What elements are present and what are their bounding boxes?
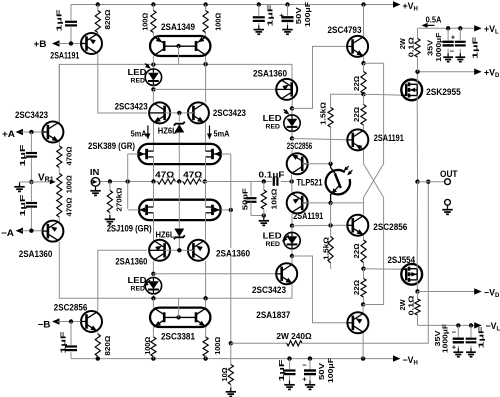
- MOSFET 2SJ554 (output, P-channel): [401, 264, 422, 285]
- dual JFET 2SK389 (GR) input pair: [138, 144, 221, 164]
- svg-text:−: −: [452, 328, 457, 337]
- wire gate node to 2SK2955 gate: [364, 94, 407, 95]
- svg-text:LED: LED: [263, 113, 282, 123]
- dual transistor 2SC3381 (bottom current mirror package): [150, 308, 210, 327]
- label 2SA1360 (right lower cascode): [215, 248, 251, 257]
- svg-text:2SC3423: 2SC3423: [115, 101, 148, 111]
- dual transistor 2SA1349 (input current mirror package): [150, 36, 210, 56]
- wire 2SJ554 drain down to -V_D node: [416, 280, 418, 292]
- resistor 47 ohm (left source): [158, 179, 176, 184]
- wire 2SC3423 collector up to mid rail: [58, 64, 60, 122]
- wire center tap down to mid rail: [178, 46, 180, 64]
- node LED4 top junction: [290, 224, 294, 228]
- label -V_L with arrow: [474, 322, 482, 328]
- LED RED (VAS bias upper): [291, 108, 293, 115]
- resistor 820 ohm (bottom left): [97, 332, 99, 334]
- svg-text:50V: 50V: [317, 362, 326, 380]
- svg-text:0.5A: 0.5A: [426, 14, 442, 24]
- svg-text:+: +: [302, 375, 307, 384]
- svg-text:HZ6L: HZ6L: [156, 230, 175, 239]
- svg-text:2SA1360: 2SA1360: [115, 257, 147, 267]
- transistor 2SA1191 (VAS lower, PNP mirrored): [287, 192, 308, 213]
- wire 2SJ109 sources up to 47 ohm rail: [153, 182, 155, 208]
- wire LED junction down to 2SC3423 collector: [152, 89, 154, 102]
- svg-text:100Ω: 100Ω: [140, 13, 149, 31]
- wire 2SA1191 base to TLP junction: [302, 202, 330, 204]
- svg-text:100μF: 100μF: [303, 2, 312, 27]
- node source-rail junctions: [151, 179, 155, 183]
- capacitor 1uF (-A to ground): [30, 182, 32, 202]
- label +V_H with arrow: [393, 1, 401, 7]
- wire emitter junction to bypass column: [364, 63, 384, 164]
- wire 2SA1837 emitter to junction: [362, 305, 364, 313]
- node LED2 bottom junction: [290, 136, 294, 140]
- transistor 2SA1360 (far left input, PNP): [42, 221, 63, 242]
- wire right 2SA1360 collector down to lower mid rail: [205, 261, 207, 299]
- LED RED (top bias chain): [152, 65, 154, 69]
- svg-text:IN: IN: [90, 167, 100, 177]
- node comp junctions: [262, 179, 266, 183]
- svg-text:47Ω: 47Ω: [155, 171, 175, 180]
- capacitor 1uF (top left, rail to +B line): [70, 5, 72, 21]
- wire VR1 wiper to ground junction: [31, 181, 51, 183]
- svg-text:2SK2955: 2SK2955: [426, 87, 461, 97]
- resistor 100 ohm (left, below 2SC3381): [152, 327, 154, 337]
- capacitor 35V 1000uF (-V_L): [457, 325, 459, 337]
- svg-text:LED: LED: [128, 275, 147, 285]
- node 2SC4793 emitter junction: [361, 61, 365, 65]
- wire cross-over diagonals: [364, 164, 384, 198]
- svg-text:LED: LED: [128, 67, 147, 77]
- capacitor 50V 100uF (-V_H bypass): [309, 359, 311, 369]
- capacitor 1uF (bottom left, -B to rail): [70, 322, 72, 346]
- svg-text:HZ6L: HZ6L: [158, 126, 177, 135]
- svg-text:+: +: [452, 343, 457, 352]
- svg-text:+B: +B: [34, 39, 48, 49]
- svg-text:22Ω: 22Ω: [352, 107, 361, 122]
- transistor 2SC4793 (pre-driver upper, NPN): [347, 36, 368, 57]
- svg-text:1μF: 1μF: [54, 9, 63, 31]
- wire mid rail (2SA1349 collectors / LED row): [59, 64, 292, 122]
- svg-text:2SJ109 (GR): 2SJ109 (GR): [107, 223, 152, 233]
- node +A junction: [29, 130, 33, 134]
- wire 2SK2955 source down to OUT: [416, 96, 418, 182]
- wire 2SC4793 emitter to junction: [363, 57, 365, 64]
- wire 2SA1191 collector down to LED4 junction: [291, 214, 293, 226]
- svg-text:−A: −A: [1, 228, 15, 238]
- capacitor 1uF (+A to ground): [30, 132, 32, 152]
- svg-text:2SC2856: 2SC2856: [54, 303, 88, 313]
- node junction dots on +V_H rail: [96, 2, 100, 6]
- wire -A to base: [21, 230, 42, 232]
- svg-text:TLP521: TLP521: [297, 178, 323, 188]
- svg-text:270kΩ: 270kΩ: [115, 188, 124, 212]
- resistor 47 ohm (right source): [183, 179, 201, 184]
- svg-text:0.1Ω: 0.1Ω: [406, 296, 415, 316]
- svg-text:2W 240Ω: 2W 240Ω: [276, 331, 311, 341]
- wire 2SA1349 joined bases with center tap: [164, 45, 196, 47]
- wire 2SC4793 collector to +V_H rail: [363, 5, 365, 37]
- node -V_D junction: [415, 289, 419, 293]
- svg-text:100Ω: 100Ω: [65, 175, 74, 193]
- ground below 270k: [109, 215, 111, 219]
- transistor 2SC2856 (driver lower, NPN): [347, 215, 368, 236]
- transistor 2SA1837 (pre-driver lower, PNP): [347, 312, 368, 333]
- wire TLP junction to left cross branch: [331, 202, 364, 204]
- wire cascode base row: [164, 112, 193, 114]
- node LED bottom junction: [151, 87, 155, 91]
- transistor 2SA1191 (input buffer top left, PNP): [81, 33, 102, 54]
- svg-text:100μF: 100μF: [326, 358, 335, 383]
- wire LED4 junction to 2SC2856 base (lower VAS): [292, 224, 347, 226]
- svg-text:5mA: 5mA: [214, 129, 230, 138]
- svg-text:5mA: 5mA: [131, 129, 147, 138]
- node +V_D junction: [415, 70, 419, 74]
- svg-text:2SA1360: 2SA1360: [216, 248, 250, 258]
- node trim/ground junction: [29, 180, 33, 184]
- wire 2SC2856 emitter up to LED2 junction: [291, 139, 293, 154]
- wire +A to base: [21, 131, 42, 133]
- svg-text:1μF: 1μF: [477, 326, 486, 348]
- LED RED (VAS bias lower): [291, 226, 293, 233]
- svg-text:820Ω: 820Ω: [103, 10, 112, 30]
- svg-text:−: −: [450, 47, 455, 56]
- wire input row: [98, 181, 157, 183]
- wire 2SK2955 drain up to +V_D node: [416, 72, 418, 85]
- svg-text:2SC2856: 2SC2856: [287, 141, 312, 151]
- svg-text:2SA1837: 2SA1837: [256, 310, 290, 320]
- capacitor 1uF (+V_H bypass): [258, 5, 260, 16]
- svg-text:2SA1360: 2SA1360: [253, 69, 287, 79]
- wire 2SA1191 collector down to cascode base row: [97, 53, 147, 113]
- transistor 2SC2856 (input buffer bottom left, NPN): [81, 311, 102, 332]
- node -A junction: [29, 229, 33, 233]
- svg-text:−: −: [302, 361, 307, 370]
- resistor 2W 240 ohm (feedback): [231, 342, 287, 344]
- svg-text:RED: RED: [266, 123, 281, 130]
- wire +V_D row: [418, 71, 477, 73]
- wire 2SA1360 collector to junction: [291, 100, 293, 109]
- transistor 2SC3423 (right cascode, NPN): [188, 102, 209, 123]
- svg-text:10Ω: 10Ω: [220, 368, 229, 382]
- wire 2SK389 right gate to feedback column: [221, 153, 231, 155]
- label +V_D with arrow: [474, 69, 482, 75]
- wire -V_L row: [418, 324, 477, 326]
- potentiometer VR1 100 ohm: [57, 174, 62, 196]
- svg-text:100Ω: 100Ω: [143, 337, 152, 355]
- resistor 1.5k ohm (upper VAS bias): [330, 127, 332, 164]
- node LED3 top junction: [151, 272, 155, 276]
- transistor 2SA1360 (right lower cascode, PNP): [188, 240, 209, 261]
- wire right 2SC3423 emitter to 2SK389 drain: [205, 123, 207, 152]
- wire 2SC3381 right collector to lower mid rail: [205, 298, 207, 307]
- node OUT junctions: [415, 180, 419, 184]
- wire gate node to 2SJ554 gate: [364, 268, 407, 271]
- wire 2SK389 sources down to 47 ohm rail: [153, 157, 155, 182]
- svg-text:1μF: 1μF: [18, 194, 27, 216]
- resistor 470 ohm (lower arm of VR1 chain): [57, 195, 62, 217]
- resistor 820 ohm (top left): [97, 5, 99, 11]
- dual JFET 2SJ109 (GR) input pair: [139, 200, 221, 220]
- svg-text:2SC3381: 2SC3381: [161, 331, 195, 341]
- resistor 22 ohm (gate chain 3): [361, 240, 366, 263]
- resistor 100 ohm (right, above 2SA1349): [205, 5, 207, 11]
- svg-text:+: +: [279, 11, 284, 20]
- svg-text:2SA1349: 2SA1349: [161, 22, 195, 32]
- svg-text:+A: +A: [2, 129, 16, 139]
- node lower mid-rail junctions: [151, 296, 155, 300]
- svg-text:OUT: OUT: [440, 169, 458, 180]
- wire 2SC3381 left collector to lower mid rail: [152, 298, 154, 307]
- svg-text:1.5kΩ: 1.5kΩ: [322, 237, 331, 260]
- wire +V_L row: [418, 27, 477, 29]
- resistor 270k ohm (input bias return): [109, 182, 111, 191]
- svg-text:0.1Ω: 0.1Ω: [406, 37, 415, 57]
- capacitor 1uF (-V_H bypass): [289, 359, 291, 369]
- capacitor 35V 1000uF (+V_L): [447, 28, 449, 40]
- wire 2SJ109 left gate: [128, 209, 139, 211]
- svg-text:−B: −B: [38, 319, 52, 329]
- capacitor 50pF (feedback comp): [250, 182, 252, 197]
- svg-text:1μF: 1μF: [277, 359, 286, 381]
- label 2SC2856 (VAS upper): [286, 141, 313, 150]
- node mid-rail junctions: [151, 62, 155, 66]
- svg-text:2SA1360: 2SA1360: [19, 249, 53, 259]
- node feedback junction at 240 ohm: [229, 341, 233, 345]
- svg-text:10kΩ: 10kΩ: [270, 189, 279, 210]
- wire LED junction to 2SA1360 cascode base: [153, 88, 276, 90]
- node 2SA1837 emitter junction: [361, 302, 365, 306]
- wire 2SC2856 collector down to VAS input junction: [291, 175, 293, 182]
- node +B junction: [69, 41, 73, 45]
- svg-text:RED: RED: [131, 78, 146, 85]
- resistor 2W 0.1 ohm (upper source feed): [417, 28, 419, 38]
- wire left 2SA1360 collector to LED junction: [152, 261, 154, 274]
- zener diode HZ6L (top): [178, 113, 180, 122]
- svg-text:22Ω: 22Ω: [352, 280, 361, 295]
- svg-text:2SC3423: 2SC3423: [213, 108, 246, 118]
- node lower cascode base junction: [177, 248, 181, 252]
- svg-text:1.5kΩ: 1.5kΩ: [318, 102, 327, 125]
- transistor 2SC3423 (lower right, NPN): [276, 263, 297, 284]
- svg-text:470Ω: 470Ω: [65, 147, 74, 166]
- wire 2SA1349 right collector to mid rail: [205, 56, 207, 64]
- wire collector node to 2SC4793 base: [292, 46, 347, 108]
- wire 240 ohm to OUT column: [302, 182, 428, 344]
- resistor 100 ohm (left, above 2SA1349): [152, 5, 154, 11]
- LED RED (bottom bias chain): [152, 274, 154, 278]
- node TLP emitter junction: [328, 201, 332, 205]
- wire between 47 ohm resistors: [175, 181, 183, 183]
- resistor 100 ohm (right, below 2SC3381): [205, 327, 207, 337]
- svg-text:22Ω: 22Ω: [352, 76, 361, 91]
- wire LED2 junction to 2SA1191 base: [292, 139, 348, 140]
- resistor 1.5k ohm (lower VAS bias): [330, 203, 332, 237]
- wire 2SC2856 base to 1.5k junction: [302, 163, 330, 165]
- resistor 22 ohm (gate chain 1): [363, 63, 365, 71]
- wire lower mid rail: [59, 242, 292, 299]
- svg-text:2SK389 (GR): 2SK389 (GR): [88, 141, 135, 151]
- label +V_L with arrow: [474, 25, 482, 31]
- node -V_L junctions: [456, 323, 460, 327]
- wire 2SA1349 left collector to mid rail: [152, 56, 154, 65]
- node 2SA1360 collector node: [290, 106, 294, 110]
- wire +B to base of 2SA1191: [58, 43, 81, 45]
- wire 2SA1191 emitter up to VAS input junction: [291, 182, 293, 193]
- ground below 10 ohm: [230, 388, 232, 392]
- svg-text:47Ω: 47Ω: [183, 171, 203, 180]
- svg-text:1μF: 1μF: [18, 144, 27, 166]
- svg-text:RED: RED: [266, 241, 281, 248]
- node +V_L junctions: [446, 26, 450, 30]
- svg-text:2SC4793: 2SC4793: [328, 25, 362, 35]
- node junction dots on -V_H rail: [96, 356, 100, 360]
- resistor 10k ohm (comp): [263, 182, 265, 191]
- node gate node of 2SK2955: [361, 92, 365, 96]
- wire feedback column: [230, 154, 232, 343]
- wire LED4 bottom to 2SC3423 collector and 2SA1837 base: [292, 256, 347, 323]
- svg-text:470Ω: 470Ω: [65, 198, 74, 217]
- wire -V_H bottom rail: [71, 358, 395, 360]
- wire -B to base: [58, 321, 81, 323]
- wire center tap up to lower mid rail: [178, 298, 180, 317]
- wire left 2SJ109 drain to 2SA1360 emitter: [153, 213, 155, 241]
- resistor 22 ohm (gate chain 4): [363, 269, 365, 279]
- node input junctions: [108, 179, 112, 183]
- transistor 2SC3423 (far left input, NPN): [42, 122, 63, 143]
- svg-text:1000μF: 1000μF: [440, 324, 449, 353]
- label -V_D with arrow: [418, 291, 477, 293]
- node -B junction: [69, 319, 73, 323]
- transistor 2SA1360 (upper cascode for VAS, PNP): [276, 79, 297, 100]
- svg-text:2SA1191: 2SA1191: [293, 211, 323, 221]
- wire LED junction to 2SC3423 base (bottom): [153, 273, 276, 275]
- node 2SA1349 base tap: [176, 44, 180, 48]
- svg-text:0.1μF: 0.1μF: [259, 171, 285, 180]
- capacitor 1uF (+V_L): [459, 28, 461, 40]
- svg-text:LED: LED: [263, 230, 282, 240]
- node VAS input junction: [290, 179, 294, 183]
- wire 2SC3381 joined bases with center tap: [164, 316, 196, 318]
- transistor 2SC3423 (left cascode, NPN): [149, 102, 170, 123]
- wire lower cascode base row: [164, 249, 193, 251]
- node gate node of 2SJ554: [361, 267, 365, 271]
- svg-text:2SA1191: 2SA1191: [50, 51, 79, 61]
- node 2SC2856 base junction: [328, 162, 332, 166]
- svg-text:50pF: 50pF: [240, 188, 249, 210]
- svg-text:1μF: 1μF: [265, 4, 274, 26]
- svg-text:2SC3423: 2SC3423: [252, 285, 286, 295]
- svg-text:2SA1191: 2SA1191: [374, 133, 404, 143]
- svg-text:1μF: 1μF: [471, 36, 480, 58]
- label -V_H with arrow: [393, 355, 401, 361]
- svg-text:1000μF: 1000μF: [434, 32, 443, 61]
- zener diode HZ6L (bottom): [178, 182, 180, 229]
- wire gate column (IN to both left gates): [127, 154, 129, 209]
- ground below 10k: [263, 217, 265, 221]
- resistor 10 ohm (feedback shunt): [230, 343, 232, 364]
- svg-text:2SJ554: 2SJ554: [388, 255, 416, 265]
- wire 2SJ109 right gate to feedback column: [221, 209, 231, 211]
- wire +V_H top rail: [71, 4, 395, 6]
- svg-text:1μF: 1μF: [59, 331, 68, 353]
- wire 47 ohm rail to compensation network: [201, 181, 272, 183]
- node LED4 bottom junction: [290, 254, 294, 258]
- svg-text:50V: 50V: [294, 6, 303, 24]
- node cascode base junction: [177, 111, 181, 115]
- transistor 2SA1191 (driver upper, PNP): [347, 129, 368, 150]
- wire LED4 bottom to 2SC3423 collector: [291, 256, 293, 264]
- svg-text:RED: RED: [131, 286, 146, 293]
- transistor 2SC2856 (VAS upper, NPN mirrored): [287, 153, 308, 174]
- svg-text:2SC2856: 2SC2856: [373, 222, 407, 232]
- svg-text:820Ω: 820Ω: [103, 336, 112, 356]
- wire left 2SC3423 emitter to 2SK389 drain: [153, 123, 155, 152]
- wire right 2SJ109 drain to 2SA1360 emitter: [205, 213, 207, 241]
- svg-text:22Ω: 22Ω: [352, 244, 361, 259]
- resistor 470 ohm (upper arm of VR1 chain): [58, 142, 60, 147]
- ground at trim junction: [20, 181, 32, 183]
- svg-text:2SC3423: 2SC3423: [15, 110, 48, 120]
- node feedback gate junction: [229, 208, 233, 212]
- wire 2SA1191 emitter down to cross-over: [363, 150, 365, 163]
- wire left cross branch down to 2SC2856 collector: [363, 198, 365, 215]
- wire 2SA1837 collector to -V_H rail: [362, 333, 364, 359]
- wire 2SK389 left gate: [128, 153, 139, 155]
- node 2SC3381 base tap: [176, 315, 180, 319]
- svg-text:100Ω: 100Ω: [213, 337, 222, 355]
- wire OUT to terminal: [418, 181, 445, 183]
- node 1.5k base junction (lower): [328, 223, 332, 227]
- wire 2SJ554 source up to OUT: [416, 182, 418, 269]
- wire 2SC2856 emitter to 22 ohm chain: [363, 236, 365, 240]
- resistor 22 ohm (gate chain 2): [363, 94, 365, 104]
- wire 2SA1349 right collector down to right 2SC3423 collector: [205, 64, 207, 102]
- wire 2SC2856 collector up to lower cascode base row: [97, 250, 147, 311]
- capacitor 1uF (-V_L): [470, 325, 472, 337]
- transistor 2SA1360 (left lower cascode, PNP): [149, 240, 170, 261]
- resistor 2W 0.1 ohm (lower source feed): [417, 292, 419, 300]
- MOSFET 2SK2955 (output, N-channel): [401, 80, 422, 101]
- speaker return terminal with ground: [445, 199, 451, 205]
- svg-text:100Ω: 100Ω: [214, 13, 223, 31]
- capacitor 50V 100uF (+V_H bypass): [287, 5, 289, 16]
- svg-text:+: +: [451, 32, 456, 41]
- wire emitter junction to bypass column (bottom): [363, 198, 384, 305]
